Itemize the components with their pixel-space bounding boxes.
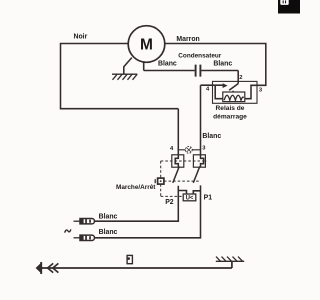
earth rail wire (37, 261, 232, 268)
relay K1 outer box (213, 81, 258, 103)
logo watermark (278, 0, 300, 14)
undervoltage release box U< (183, 194, 196, 201)
svg-text:P1: P1 (204, 195, 213, 202)
lamp (dotted circle) (185, 146, 192, 153)
mechanical link dashed (161, 161, 207, 196)
lamp stubs (178, 149, 200, 151)
svg-text:P2: P2 (165, 199, 174, 206)
ground (chassis bottom right) (216, 257, 244, 262)
contact detour left (175, 155, 178, 167)
wire relay pin4 down (right switch wire) (200, 85, 202, 155)
relay coil left branch (215, 85, 223, 99)
svg-text:Blanc: Blanc (99, 214, 118, 221)
earth arrow (36, 262, 42, 274)
relay coil box (223, 92, 245, 102)
relay coil winding (224, 95, 243, 100)
label Relais de demarrage (213, 105, 247, 120)
svg-text:Blanc: Blanc (158, 60, 177, 67)
svg-text:U<: U< (186, 196, 194, 202)
wire Noir loop (61, 44, 179, 109)
wire Marron to relay pin 3 (165, 44, 266, 99)
relay armature (229, 84, 238, 93)
contact box right (193, 155, 205, 167)
svg-text:démarrage: démarrage (213, 114, 247, 121)
wire right down to lower plug (94, 185, 200, 237)
svg-text:Condensateur: Condensateur (178, 52, 221, 59)
svg-text:Blanc: Blanc (213, 60, 232, 67)
svg-text:Marche/Arrêt: Marche/Arrêt (116, 184, 156, 191)
svg-text:Noir: Noir (74, 33, 88, 40)
capacitor C1 (196, 65, 201, 77)
svg-text:2: 2 (239, 75, 242, 81)
contact detour right (201, 155, 204, 167)
plug P lower (74, 235, 95, 240)
wire left down to upper plug (94, 186, 178, 221)
svg-text:Blanc: Blanc (202, 133, 221, 140)
svg-text:Relais de: Relais de (216, 105, 245, 112)
motor M1 (128, 26, 165, 63)
relay contact arrow (201, 83, 228, 88)
ground (motor) (112, 74, 137, 80)
svg-text:Marron: Marron (176, 36, 199, 43)
actuator button (155, 178, 164, 184)
wire capacitor to relay pin 2 (201, 71, 238, 84)
AC tilde (65, 229, 71, 232)
switch arm left (173, 166, 180, 182)
wire left switch wire down (177, 109, 179, 155)
wire motor to capacitor (144, 61, 195, 70)
svg-text:M: M (140, 37, 153, 54)
earth chevrons (48, 263, 59, 272)
svg-text:Blanc: Blanc (99, 229, 118, 236)
plug P upper (74, 219, 95, 224)
contact box left (172, 155, 184, 167)
switch arm right (193, 166, 200, 182)
undervoltage release U< taps (178, 191, 200, 195)
inline connector box (127, 255, 132, 263)
motor ground wire (124, 58, 132, 75)
